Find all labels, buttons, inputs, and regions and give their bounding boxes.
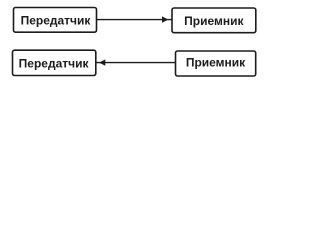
svg-text:Передатчик: Передатчик bbox=[19, 56, 90, 70]
wire: top, transmitter to receiver bbox=[97, 19, 172, 21]
block: receiver (top) bbox=[172, 8, 256, 33]
block: transmitter (bottom) bbox=[13, 50, 96, 75]
wire: bottom, receiver to transmitter bbox=[96, 62, 176, 64]
block: receiver (bottom) bbox=[176, 51, 256, 76]
block: transmitter (top) bbox=[14, 8, 97, 33]
svg-text:Приемник: Приемник bbox=[184, 14, 244, 28]
arrowhead: pointing right into top receiver bbox=[162, 16, 168, 22]
svg-text:Передатчик: Передатчик bbox=[21, 14, 92, 28]
arrowhead: pointing left into bottom transmitter bbox=[99, 59, 105, 65]
svg-text:Приемник: Приемник bbox=[186, 55, 246, 69]
